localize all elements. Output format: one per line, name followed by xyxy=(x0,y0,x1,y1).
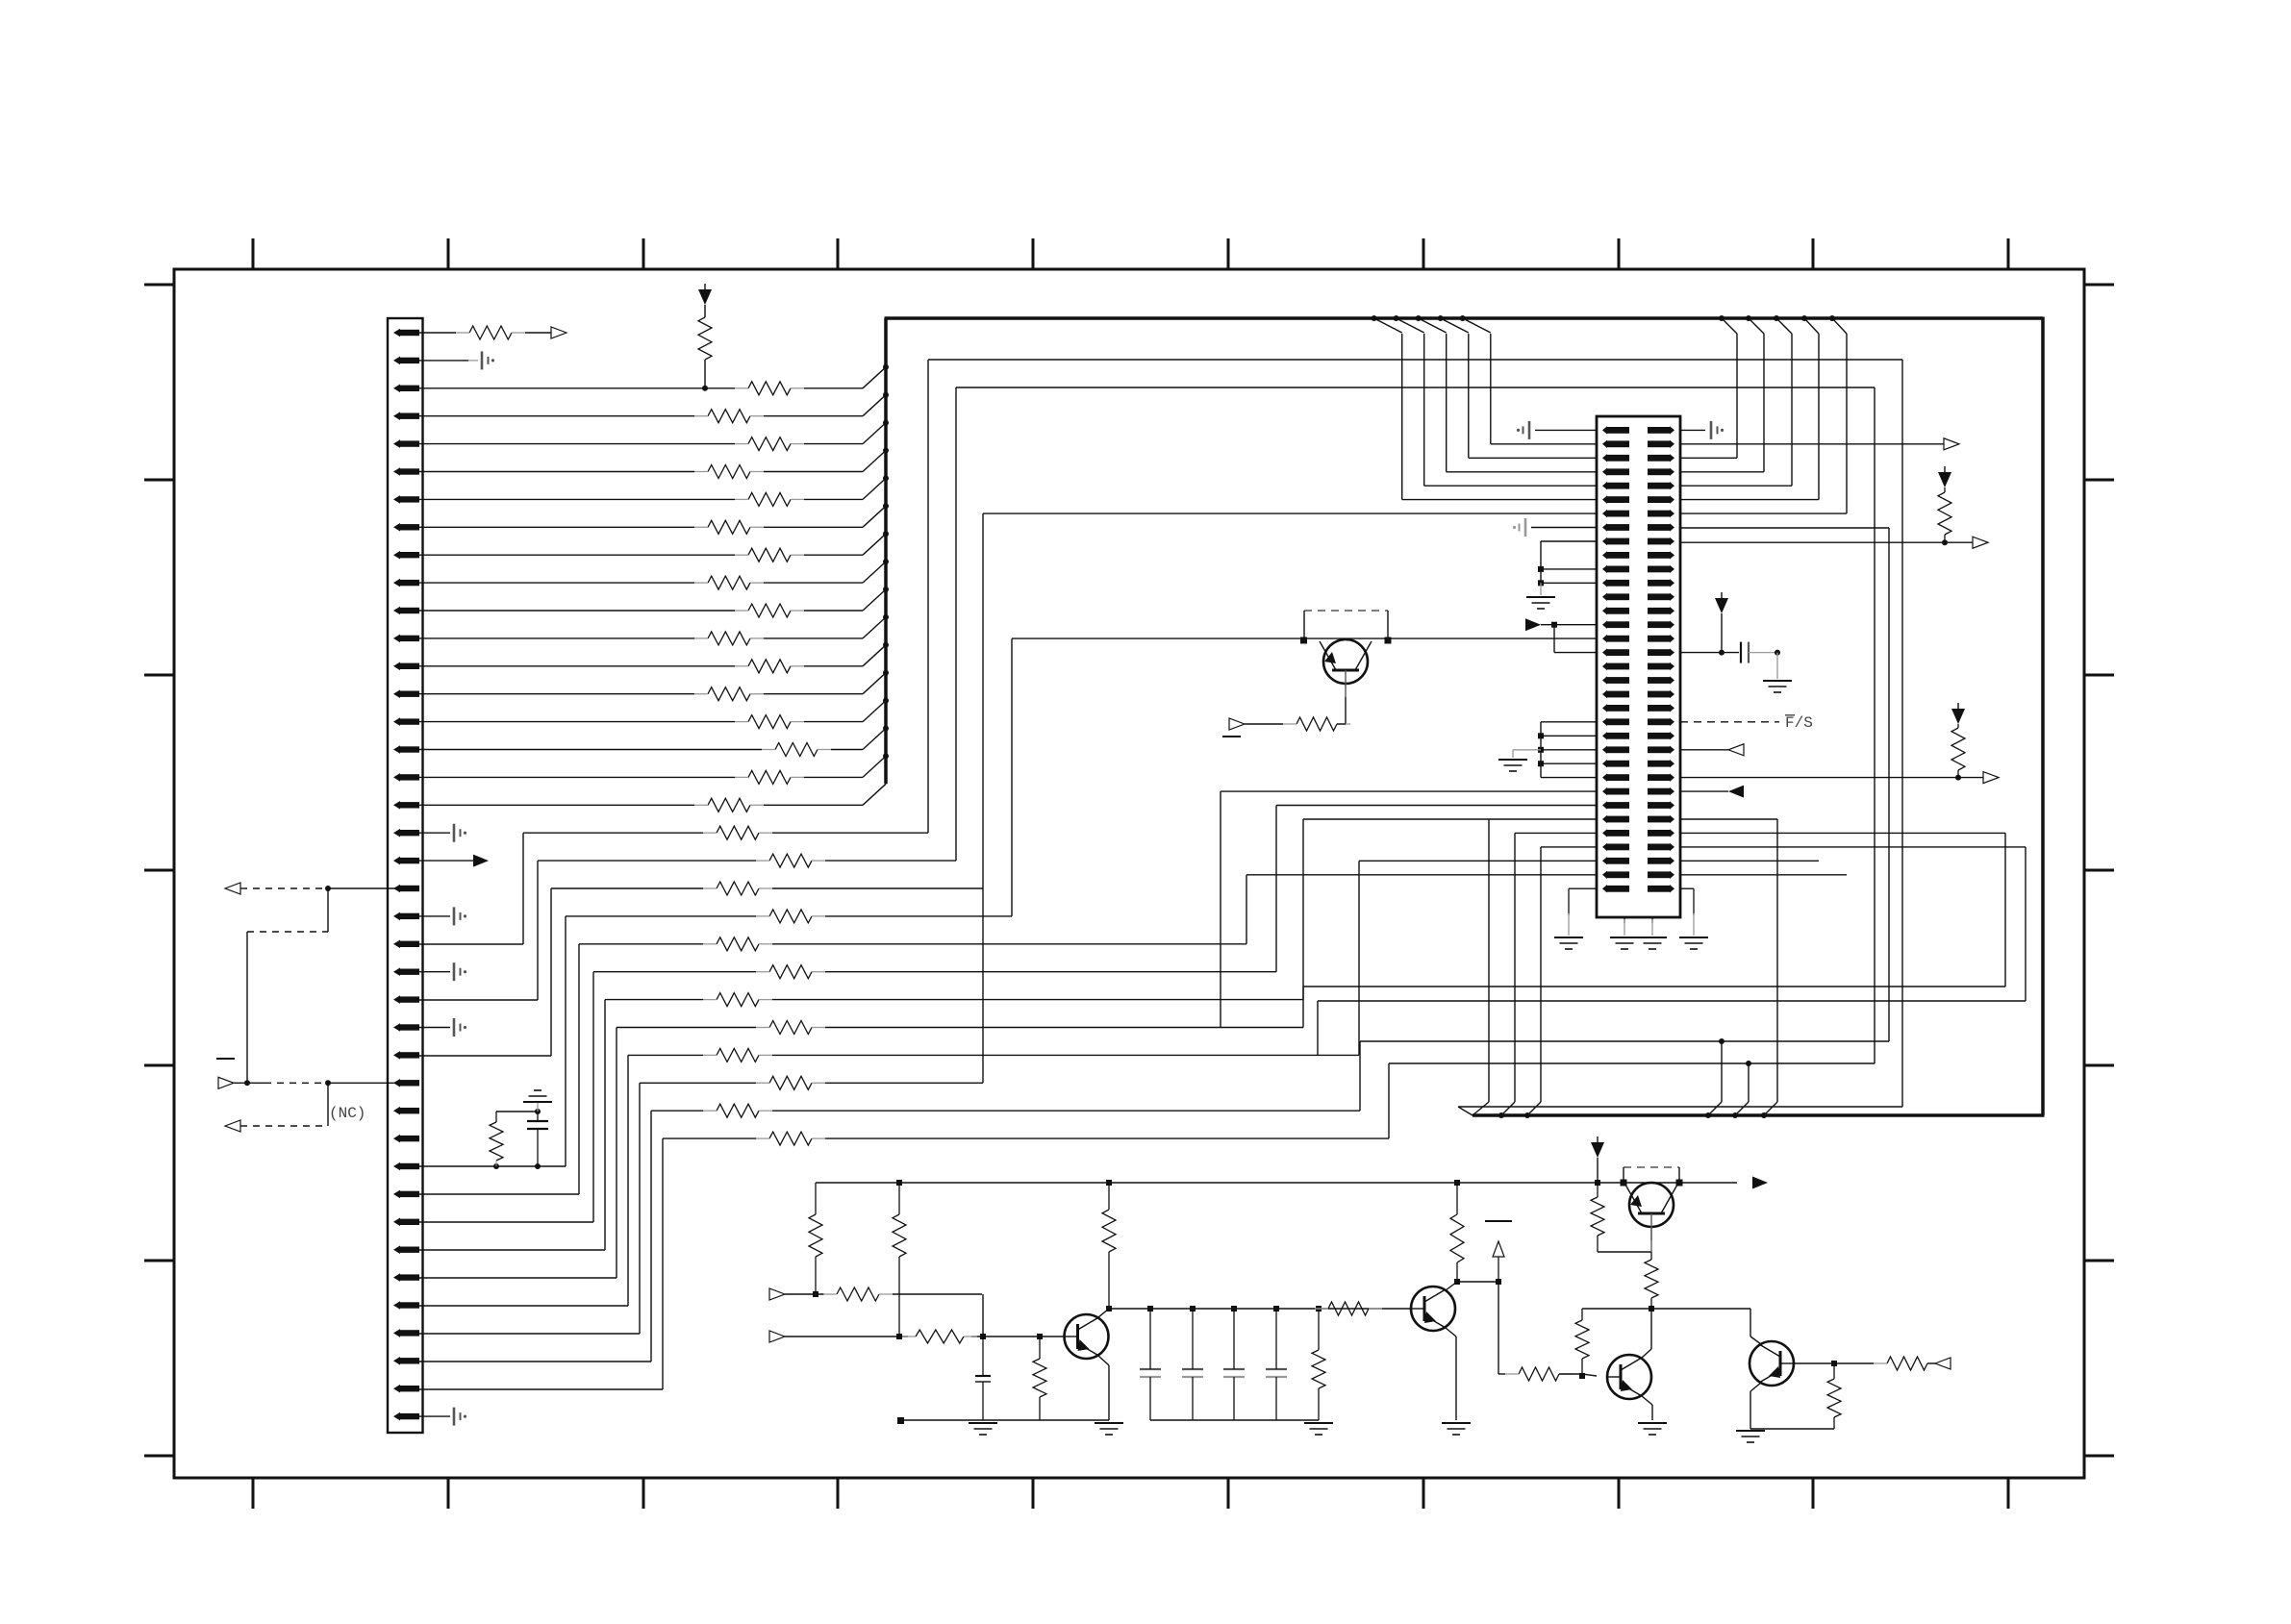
wire nest v1414 xyxy=(1359,1041,1361,1111)
wire pin11 bus slant xyxy=(863,589,886,611)
label NC xyxy=(329,1105,365,1122)
junction rc2 xyxy=(535,1163,541,1169)
wire bus tap vertical R2 xyxy=(1791,334,1793,486)
resistor pin11 xyxy=(735,604,804,617)
wire 34R gnd xyxy=(1680,888,1694,936)
rail3 xyxy=(1150,1419,1319,1421)
wire Q7 emit row xyxy=(1750,1428,1834,1430)
frame bottom ticks xyxy=(253,1478,2008,1509)
junction Q7 base xyxy=(1831,1361,1837,1366)
resistor pin18 xyxy=(694,798,764,812)
power symbol 9R xyxy=(1938,466,1951,487)
bus vertical left xyxy=(884,318,888,784)
transistor Q7 xyxy=(1750,1341,1794,1386)
wire pin18 bus slant xyxy=(863,784,886,805)
wire stair row 7 xyxy=(617,1027,1303,1029)
wire stair row 4 xyxy=(579,943,1246,945)
wire tap v1548 xyxy=(1488,819,1490,1102)
wire stair pin bottom 6 xyxy=(419,1249,605,1251)
wire pin5 bus slant xyxy=(863,423,886,444)
open arrow NC xyxy=(225,1120,240,1132)
open arrow pin21 xyxy=(225,883,240,894)
wire pin21 left xyxy=(328,887,419,889)
junction 15L xyxy=(1551,622,1557,628)
resistor Q5 chain xyxy=(1645,1252,1658,1309)
frame right ticks xyxy=(2084,285,2114,1456)
ground 17R xyxy=(1763,681,1792,692)
dashed wire NC xyxy=(240,1125,328,1127)
wire pin4 row xyxy=(419,415,863,417)
connector J2 pins xyxy=(1602,426,1674,892)
junction pin21 xyxy=(325,886,331,891)
junction bus tap L4 xyxy=(1460,315,1466,321)
power symbol Q5 xyxy=(1591,1137,1604,1158)
wire nest v1296 xyxy=(1246,875,1247,944)
wire nest v1949 xyxy=(1874,387,1876,1063)
wire Q6 emit xyxy=(1642,1396,1652,1420)
ground J2 b xyxy=(1610,937,1639,949)
wire pin13 row xyxy=(419,665,863,667)
junction Q1 coll node xyxy=(1454,1279,1460,1285)
wire pin16 row xyxy=(419,749,863,751)
wire pin7 row xyxy=(419,498,863,500)
dashed wire pin21 xyxy=(240,887,328,889)
dashed box Q5 xyxy=(1624,1167,1679,1183)
wire pin18 row xyxy=(419,804,863,806)
ground rc up xyxy=(523,1090,552,1112)
junction pin3 pullup xyxy=(702,386,708,391)
wire nest h1106 xyxy=(1389,1062,1875,1064)
wire tap v1602 xyxy=(1540,847,1542,1102)
wire pin1 out xyxy=(525,332,551,334)
wire pin12 row xyxy=(419,637,863,639)
wire bus tap vertical R0 xyxy=(1736,334,1738,458)
wire pin1 xyxy=(414,332,456,334)
wire 30L row xyxy=(1515,832,1597,834)
wire tie2 gnd stub xyxy=(1513,750,1541,758)
resistor stair row 6 xyxy=(703,993,772,1007)
wire node to dash xyxy=(234,1082,264,1084)
junction bus 1561 xyxy=(1498,1112,1504,1118)
wire tap v1818 xyxy=(1748,1063,1750,1102)
wire nest v1327 xyxy=(1275,806,1277,972)
wire stair row 3 xyxy=(566,915,1012,917)
wire tie2 vertical xyxy=(1540,722,1542,778)
junction tie2 row25 xyxy=(1538,761,1544,766)
wire pin4 bus slant xyxy=(863,395,886,416)
power symbol 17R xyxy=(1715,592,1728,613)
wire bus tap row L0 xyxy=(1402,499,1597,501)
wire 31R h1041 xyxy=(1318,1000,2026,1002)
wire stair pin bottom 2 xyxy=(419,1055,551,1057)
junction pin15 bus xyxy=(883,698,889,704)
wire bus tap row L2 xyxy=(1447,471,1597,473)
wire pin8 bus slant xyxy=(863,506,886,527)
wire tap slant 1848 xyxy=(1764,1102,1777,1115)
capacitor rc xyxy=(527,1112,548,1166)
resistor stair row 2 xyxy=(703,882,772,895)
ground J2 c xyxy=(1638,937,1667,949)
junction bus tap R0 xyxy=(1719,315,1725,321)
junction Q3 coll xyxy=(1106,1306,1112,1312)
junction bus tap R4 xyxy=(1829,315,1835,321)
wire bus tap vertical L3 xyxy=(1468,334,1470,458)
wire 17L xyxy=(1554,652,1597,654)
ground Q6 xyxy=(1638,1423,1667,1435)
wire pin22 xyxy=(419,915,450,917)
wire bus tap slant R3 xyxy=(1804,318,1819,334)
wire stair row 2 xyxy=(551,887,983,889)
wire stair pin bottom 1 xyxy=(419,999,538,1001)
wire pin10 bus slant xyxy=(863,562,886,583)
wire tie2 row22 xyxy=(1541,721,1597,723)
wire pin14 bus slant xyxy=(863,673,886,694)
capacitor C0 xyxy=(1140,1309,1161,1420)
resistor pin5 xyxy=(735,437,804,451)
dashed wire jog xyxy=(247,931,328,933)
shield symbol pin26 xyxy=(454,1018,466,1037)
junction pin8 bus xyxy=(883,503,889,509)
junction cap3 xyxy=(1273,1306,1279,1312)
wire bus tap row R0 xyxy=(1680,457,1737,459)
junction pin4 bus xyxy=(883,392,889,398)
resistor stair row 0 xyxy=(703,826,772,839)
wire Q4 base row xyxy=(1245,723,1283,725)
wire 33R row xyxy=(1680,874,1847,876)
wire pin2 xyxy=(414,360,468,362)
wire stair vertical 4 xyxy=(578,944,580,1194)
wire pin16 bus slant xyxy=(863,729,886,750)
polarity bar node xyxy=(1485,1220,1512,1222)
junction pin28 xyxy=(325,1080,331,1086)
junction Q4 left xyxy=(1300,637,1307,644)
wire stair vertical 1 xyxy=(537,861,539,1000)
wire nest v1022 xyxy=(982,513,984,1083)
junction bus tap L2 xyxy=(1416,315,1422,321)
wire pin3 bus slant xyxy=(863,367,886,388)
wire pin15 bus slant xyxy=(863,701,886,722)
junction 25R xyxy=(1955,775,1961,781)
wire stair vertical 0 xyxy=(522,833,524,944)
junction in1 xyxy=(813,1291,818,1297)
wire tie2 row23 xyxy=(1541,735,1597,737)
wire bus tap slant L0 xyxy=(1374,318,1402,333)
junction pin11 bus xyxy=(883,587,889,592)
shield symbol 1R xyxy=(1711,421,1724,439)
wire in2 xyxy=(785,1336,1066,1337)
open arrow 25R xyxy=(1983,772,1999,784)
wire bus tap row R1 xyxy=(1680,471,1764,473)
capacitor 17R xyxy=(1741,642,1749,663)
resistor stair row 1 xyxy=(756,854,825,867)
wire 28L row xyxy=(1276,805,1597,807)
junction pin7 bus xyxy=(883,475,889,481)
wire bus tap vertical R4 xyxy=(1846,334,1848,513)
resistor in2 xyxy=(902,1330,977,1343)
wire nest h1083 xyxy=(1360,1040,1889,1042)
junction pin6 bus xyxy=(883,448,889,454)
wire stair row 5 xyxy=(593,971,1276,973)
frame left ticks xyxy=(144,285,174,1456)
wire pin8 row xyxy=(419,526,863,528)
wire pin11 row xyxy=(419,610,863,612)
wire stair row 11 xyxy=(663,1137,1389,1139)
wire Q4 base stem xyxy=(1345,697,1347,724)
junction v1558 xyxy=(1496,1279,1501,1285)
junction pin5 bus xyxy=(883,420,889,426)
shield symbol pin22 xyxy=(454,907,466,925)
bus vertical right xyxy=(2041,317,2045,1116)
wire stair vertical 10 xyxy=(650,1111,652,1362)
wire stair vertical 7 xyxy=(616,1028,617,1279)
wire bus tap row R4 xyxy=(1680,512,1847,514)
power symbol 25R xyxy=(1951,703,1965,724)
capacitor in xyxy=(975,1337,991,1420)
wire stair vertical 11 xyxy=(662,1138,664,1389)
wire pin12 bus slant xyxy=(863,617,886,638)
wire Q7 base out xyxy=(1927,1362,1935,1364)
wire pin40 xyxy=(419,1415,450,1417)
open arrow Q7 xyxy=(1935,1358,1951,1369)
open arrow Q4 xyxy=(1229,718,1245,730)
resistor pin17 xyxy=(735,770,804,784)
wire tap slant 1548 xyxy=(1473,1102,1489,1115)
wire tie1 row11 xyxy=(1541,568,1597,570)
junction rail 935 xyxy=(896,1180,902,1186)
wire bus tap slant R0 xyxy=(1722,318,1737,334)
wire stair vertical 3 xyxy=(565,916,566,1166)
wire pin13 bus slant xyxy=(863,645,886,666)
wire J2 gnd c xyxy=(1651,917,1653,936)
power symbol VCC pin3 xyxy=(698,284,712,305)
resistor pin12 xyxy=(694,632,764,645)
junction Q6 base xyxy=(1579,1373,1585,1379)
wire pin14 row xyxy=(419,693,863,695)
wire 15L down xyxy=(1553,625,1555,653)
rail2 xyxy=(897,1417,1109,1424)
resistor pin8 xyxy=(694,520,764,534)
ground tie1 xyxy=(1526,583,1555,609)
wire pin9 row xyxy=(419,554,863,556)
wire rc top xyxy=(496,1111,538,1112)
wire stair pin bottom 9 xyxy=(419,1333,640,1335)
wire Q7 coll xyxy=(1750,1309,1761,1344)
wire bus tap slant R4 xyxy=(1832,318,1847,334)
wire tap v1575 xyxy=(1514,834,1516,1103)
resistor Q5 emit xyxy=(1591,1183,1604,1252)
wire Q1 emit xyxy=(1446,1328,1456,1420)
wire tie1 vertical xyxy=(1540,541,1542,583)
wire left vertical xyxy=(246,932,248,1083)
ground tie2 xyxy=(1498,760,1527,771)
frame top ticks xyxy=(253,238,2008,269)
wire Q4 base row b xyxy=(1337,723,1346,725)
wire stair row 6 xyxy=(605,999,1303,1001)
wire 27R xyxy=(1680,790,1728,792)
junction bus tap R2 xyxy=(1774,315,1779,321)
resistor pin15 xyxy=(735,715,804,729)
open arrow pin1 out xyxy=(551,327,566,338)
resistor 1371 xyxy=(1312,1309,1325,1420)
junction 17R xyxy=(1719,650,1725,656)
resistor bias Q1 xyxy=(1450,1183,1464,1282)
rail top xyxy=(816,1182,1737,1184)
resistor bias2 xyxy=(893,1183,906,1337)
wire pin20 xyxy=(419,860,473,862)
wire h1429 xyxy=(1498,1373,1505,1375)
bus horizontal bottom xyxy=(1473,1113,2045,1117)
wire stair row 8 xyxy=(628,1054,1359,1056)
wire tap v1848 xyxy=(1776,819,1778,1102)
wire pin17 bus slant xyxy=(863,756,886,777)
junction in2b xyxy=(1037,1334,1043,1339)
junction chain 1717 xyxy=(1649,1306,1654,1312)
wire Q7 emit xyxy=(1750,1383,1761,1429)
junction rail 1661 xyxy=(1595,1180,1600,1186)
wire 16L row xyxy=(1012,637,1597,639)
wire bus tap vertical R3 xyxy=(1818,334,1820,500)
capacitor C3 xyxy=(1266,1309,1287,1420)
junction cap1 xyxy=(1190,1306,1196,1312)
wire 30R h1026 xyxy=(1303,986,2005,987)
wire Q6 base xyxy=(1559,1374,1597,1376)
resistor Q7 fb xyxy=(1827,1363,1841,1429)
wire bus tap row L1 xyxy=(1424,485,1597,487)
wire stair pin bottom 11 xyxy=(419,1388,663,1390)
wire tap v1790 xyxy=(1721,1041,1723,1102)
border frame xyxy=(174,269,2084,1478)
wire 29R row xyxy=(1680,818,1777,820)
wire nest h374 xyxy=(928,359,1902,361)
wire 33L row xyxy=(1246,874,1597,876)
resistor Q4 base xyxy=(1283,717,1350,731)
resistor caps-Q1 xyxy=(1315,1302,1382,1315)
wire stair pin bottom 7 xyxy=(419,1277,617,1279)
wire stair vertical 8 xyxy=(627,1055,629,1306)
svg-text:F/S: F/S xyxy=(1785,714,1813,732)
wire Q5 emit node xyxy=(1598,1227,1651,1252)
junction bus tap L0 xyxy=(1372,315,1377,321)
wire nest v1444 xyxy=(1388,1063,1390,1138)
resistor stair row 8 xyxy=(703,1048,772,1062)
wire bus tap slant L4 xyxy=(1463,318,1491,333)
ground J2 d xyxy=(1679,937,1708,949)
wire 25R out xyxy=(1680,777,1983,779)
junction rail 1153 xyxy=(1106,1180,1112,1186)
junction 17R b xyxy=(1775,650,1780,656)
wire tap slant 1602 xyxy=(1527,1102,1541,1115)
wire stair pin bottom 10 xyxy=(419,1361,651,1362)
junction rc top xyxy=(535,1109,541,1114)
resistor stair row 9 xyxy=(756,1076,825,1089)
junction pin16 bus xyxy=(883,726,889,732)
polarity bar xyxy=(216,1058,235,1060)
junction tie2 row24 xyxy=(1538,747,1544,753)
resistor stair row 3 xyxy=(756,910,825,923)
resistor pin14 xyxy=(694,687,764,701)
wire stair pin bottom 4 xyxy=(419,1193,579,1195)
shield symbol 8L xyxy=(1513,518,1525,537)
wire 24R xyxy=(1680,749,1728,751)
connector J2 body xyxy=(1597,416,1680,917)
junction in2 xyxy=(896,1334,902,1339)
wire tap slant 1790 xyxy=(1708,1102,1722,1115)
ground Q7 xyxy=(1736,1431,1765,1442)
transistor Q4 xyxy=(1320,639,1372,697)
wire pin10 row xyxy=(419,582,863,584)
resistor stair row 10 xyxy=(703,1104,772,1117)
junction pin10 bus xyxy=(883,559,889,564)
junction 9R xyxy=(1942,539,1948,545)
wire nest v1413 xyxy=(1358,861,1360,1055)
wire pin3 row xyxy=(419,387,863,389)
arrow rail out xyxy=(1752,1177,1768,1189)
junction pin9 bus xyxy=(883,531,889,537)
wire pin19 xyxy=(419,832,450,834)
wire pin6 row xyxy=(419,471,863,473)
wire stair vertical 2 xyxy=(550,888,552,1056)
capacitor C1 xyxy=(1182,1309,1203,1420)
wire nest v1355 xyxy=(1302,819,1304,1000)
shield symbol 1L xyxy=(1517,421,1529,439)
junction in1b xyxy=(980,1334,986,1339)
wire bus tap row L4 xyxy=(1491,443,1597,445)
wire 31R row xyxy=(1680,846,2026,848)
junction node left xyxy=(244,1080,250,1086)
wire nest v1978 xyxy=(1901,360,1903,1107)
ground Q1 xyxy=(1442,1423,1471,1435)
wire bus tap slant R1 xyxy=(1749,318,1764,334)
wire stair pin bottom 8 xyxy=(419,1305,628,1307)
junction tap 1818 xyxy=(1746,1061,1751,1066)
wire tap slant 1818 xyxy=(1735,1102,1749,1115)
wire stair pin bottom 0 xyxy=(419,943,523,945)
wire bus tap vertical L0 xyxy=(1401,334,1403,500)
connector J1 body xyxy=(388,318,423,1433)
label FS xyxy=(1785,714,1813,732)
wire stair vertical 5 xyxy=(592,972,594,1222)
wire stair row 9 xyxy=(640,1082,983,1084)
wire pin21 down xyxy=(327,888,329,932)
resistor in gnd xyxy=(1033,1337,1046,1420)
wire bus tap slant L3 xyxy=(1441,318,1469,333)
junction tie1 row11 xyxy=(1538,566,1544,572)
junction pin3 bus xyxy=(883,364,889,370)
wire nest v1269 xyxy=(1220,791,1221,1027)
wire 17R stem xyxy=(1721,613,1723,653)
wire 31R down xyxy=(2025,847,2027,1001)
wire bus tap row R3 xyxy=(1680,499,1819,501)
wire stair vertical 9 xyxy=(639,1083,641,1334)
junction bus 1834 xyxy=(1761,1112,1767,1118)
wire nest v965 xyxy=(927,360,929,833)
junction res1371 xyxy=(1316,1306,1322,1312)
resistor pin10 xyxy=(694,576,764,589)
resistor stair row 7 xyxy=(756,1021,825,1035)
wire stair vertical 6 xyxy=(604,1000,606,1250)
svg-text:(NC): (NC) xyxy=(329,1105,365,1122)
wire bus tap vertical L4 xyxy=(1490,334,1492,444)
wire stair row 1 xyxy=(538,860,956,862)
wire 1L xyxy=(1535,429,1597,431)
wire bus tap vertical L1 xyxy=(1423,334,1425,486)
wire pin24 xyxy=(419,971,450,973)
junction Q4 right xyxy=(1385,637,1392,644)
resistor 9R xyxy=(1938,487,1951,542)
wire 34L gnd xyxy=(1569,888,1597,936)
shield symbol pin24 xyxy=(454,962,466,981)
wire pin28 xyxy=(328,1082,419,1084)
